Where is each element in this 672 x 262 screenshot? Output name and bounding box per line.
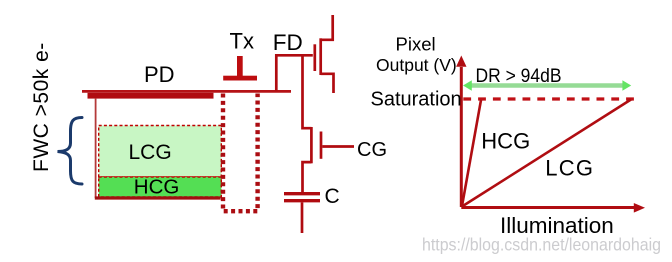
x-axis xyxy=(461,203,645,213)
svg-text:DR > 94dB: DR > 94dB xyxy=(476,66,562,87)
svg-text:Pixel: Pixel xyxy=(396,34,436,55)
svg-text:CG: CG xyxy=(357,139,387,161)
node FD wire xyxy=(276,55,313,91)
HCG well xyxy=(99,177,222,197)
wire CG gate xyxy=(322,145,354,148)
svg-text:LCG: LCG xyxy=(545,156,594,181)
dynamic range double arrow xyxy=(463,80,631,90)
y-axis xyxy=(456,56,466,208)
photodiode PD pinning layer bar xyxy=(88,93,214,99)
svg-text:FWC >50k e-: FWC >50k e- xyxy=(30,42,53,172)
svg-text:HCG: HCG xyxy=(134,176,180,199)
brace FWC xyxy=(58,118,83,185)
svg-text:C: C xyxy=(325,185,340,208)
svg-text:PD: PD xyxy=(144,62,175,87)
saturation level dashed line xyxy=(463,97,634,100)
svg-text:Output (V): Output (V) xyxy=(376,55,457,75)
svg-text:https://blog.csdn.net/leonardo: https://blog.csdn.net/leonardohaig xyxy=(422,235,661,255)
PD well bottom edge xyxy=(95,196,221,199)
wire PD surface line xyxy=(82,90,291,93)
label Pixel Output (V) xyxy=(376,34,457,75)
wire FD to CG transistor drain xyxy=(303,55,312,128)
svg-text:Saturation: Saturation xyxy=(371,89,462,111)
transistor Tx gate symbol xyxy=(223,56,257,81)
svg-text:HCG: HCG xyxy=(481,128,530,153)
wire below capacitor xyxy=(301,202,304,233)
transistor M2 conversion gain switch xyxy=(303,127,322,193)
HCG response line xyxy=(462,100,481,206)
svg-text:Tx: Tx xyxy=(230,29,254,54)
PD well left edge xyxy=(95,98,97,198)
LCG response line xyxy=(462,100,631,207)
svg-text:LCG: LCG xyxy=(129,141,172,164)
transistor M1 source follower xyxy=(315,15,334,93)
LCG well xyxy=(99,126,222,178)
Tx transfer channel dotted region xyxy=(223,94,258,212)
capacitor C xyxy=(284,194,320,201)
svg-text:FD: FD xyxy=(273,30,303,55)
